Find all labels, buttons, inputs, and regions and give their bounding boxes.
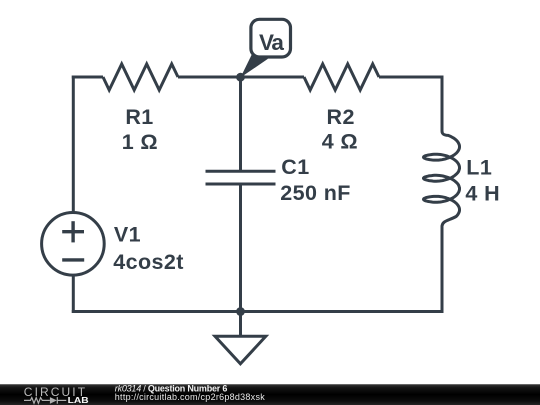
logo waveform wire (24, 397, 66, 404)
node Va callout tail (241, 52, 269, 78)
wire node A to R2 (241, 76, 304, 79)
ground symbol (215, 336, 266, 364)
node Va callout box (251, 19, 291, 57)
wire R2 to top-right corner (379, 76, 444, 79)
logo diode triangle (50, 397, 57, 404)
svg-text:R2: R2 (327, 105, 355, 129)
wire node A down to C1 (239, 77, 242, 171)
wire top-left horizontal (72, 76, 103, 79)
svg-text:http://circuitlab.com/cp2r6p8d: http://circuitlab.com/cp2r6p8d38xsk (115, 392, 265, 402)
capacitor C1 top plate (206, 170, 276, 173)
svg-text:R1: R1 (125, 105, 153, 129)
resistor R2 (304, 64, 379, 90)
svg-text:Va: Va (259, 30, 284, 55)
svg-text:L1: L1 (466, 155, 492, 179)
wire R1 to node A (178, 76, 241, 79)
wire bottom horizontal (72, 310, 444, 313)
wire V1 to bottom wire (72, 275, 75, 313)
svg-text:C1: C1 (281, 155, 309, 179)
bottom junction dot (236, 307, 245, 316)
node A junction dot (236, 73, 245, 82)
wire left vertical top to V1 (72, 76, 75, 213)
svg-text:LAB: LAB (68, 395, 89, 405)
footer bar background (0, 384, 540, 405)
svg-text:4 H: 4 H (465, 181, 500, 205)
svg-text:4 Ω: 4 Ω (322, 130, 358, 154)
resistor R1 (103, 64, 178, 90)
svg-text:250 nF: 250 nF (280, 181, 351, 205)
svg-text:V1: V1 (114, 222, 141, 246)
svg-text:1 Ω: 1 Ω (122, 130, 158, 154)
V1 minus sign (62, 258, 84, 261)
voltage source V1 circle (42, 213, 105, 276)
wire bottom node to ground (239, 312, 242, 337)
capacitor C1 bottom plate (206, 183, 276, 186)
inductor L1 coil with leads (424, 77, 460, 312)
V1 plus sign (62, 221, 84, 242)
wire C1 to bottom node (239, 184, 242, 312)
svg-text:4cos2t: 4cos2t (113, 250, 184, 274)
logo diode bar (56, 397, 58, 404)
